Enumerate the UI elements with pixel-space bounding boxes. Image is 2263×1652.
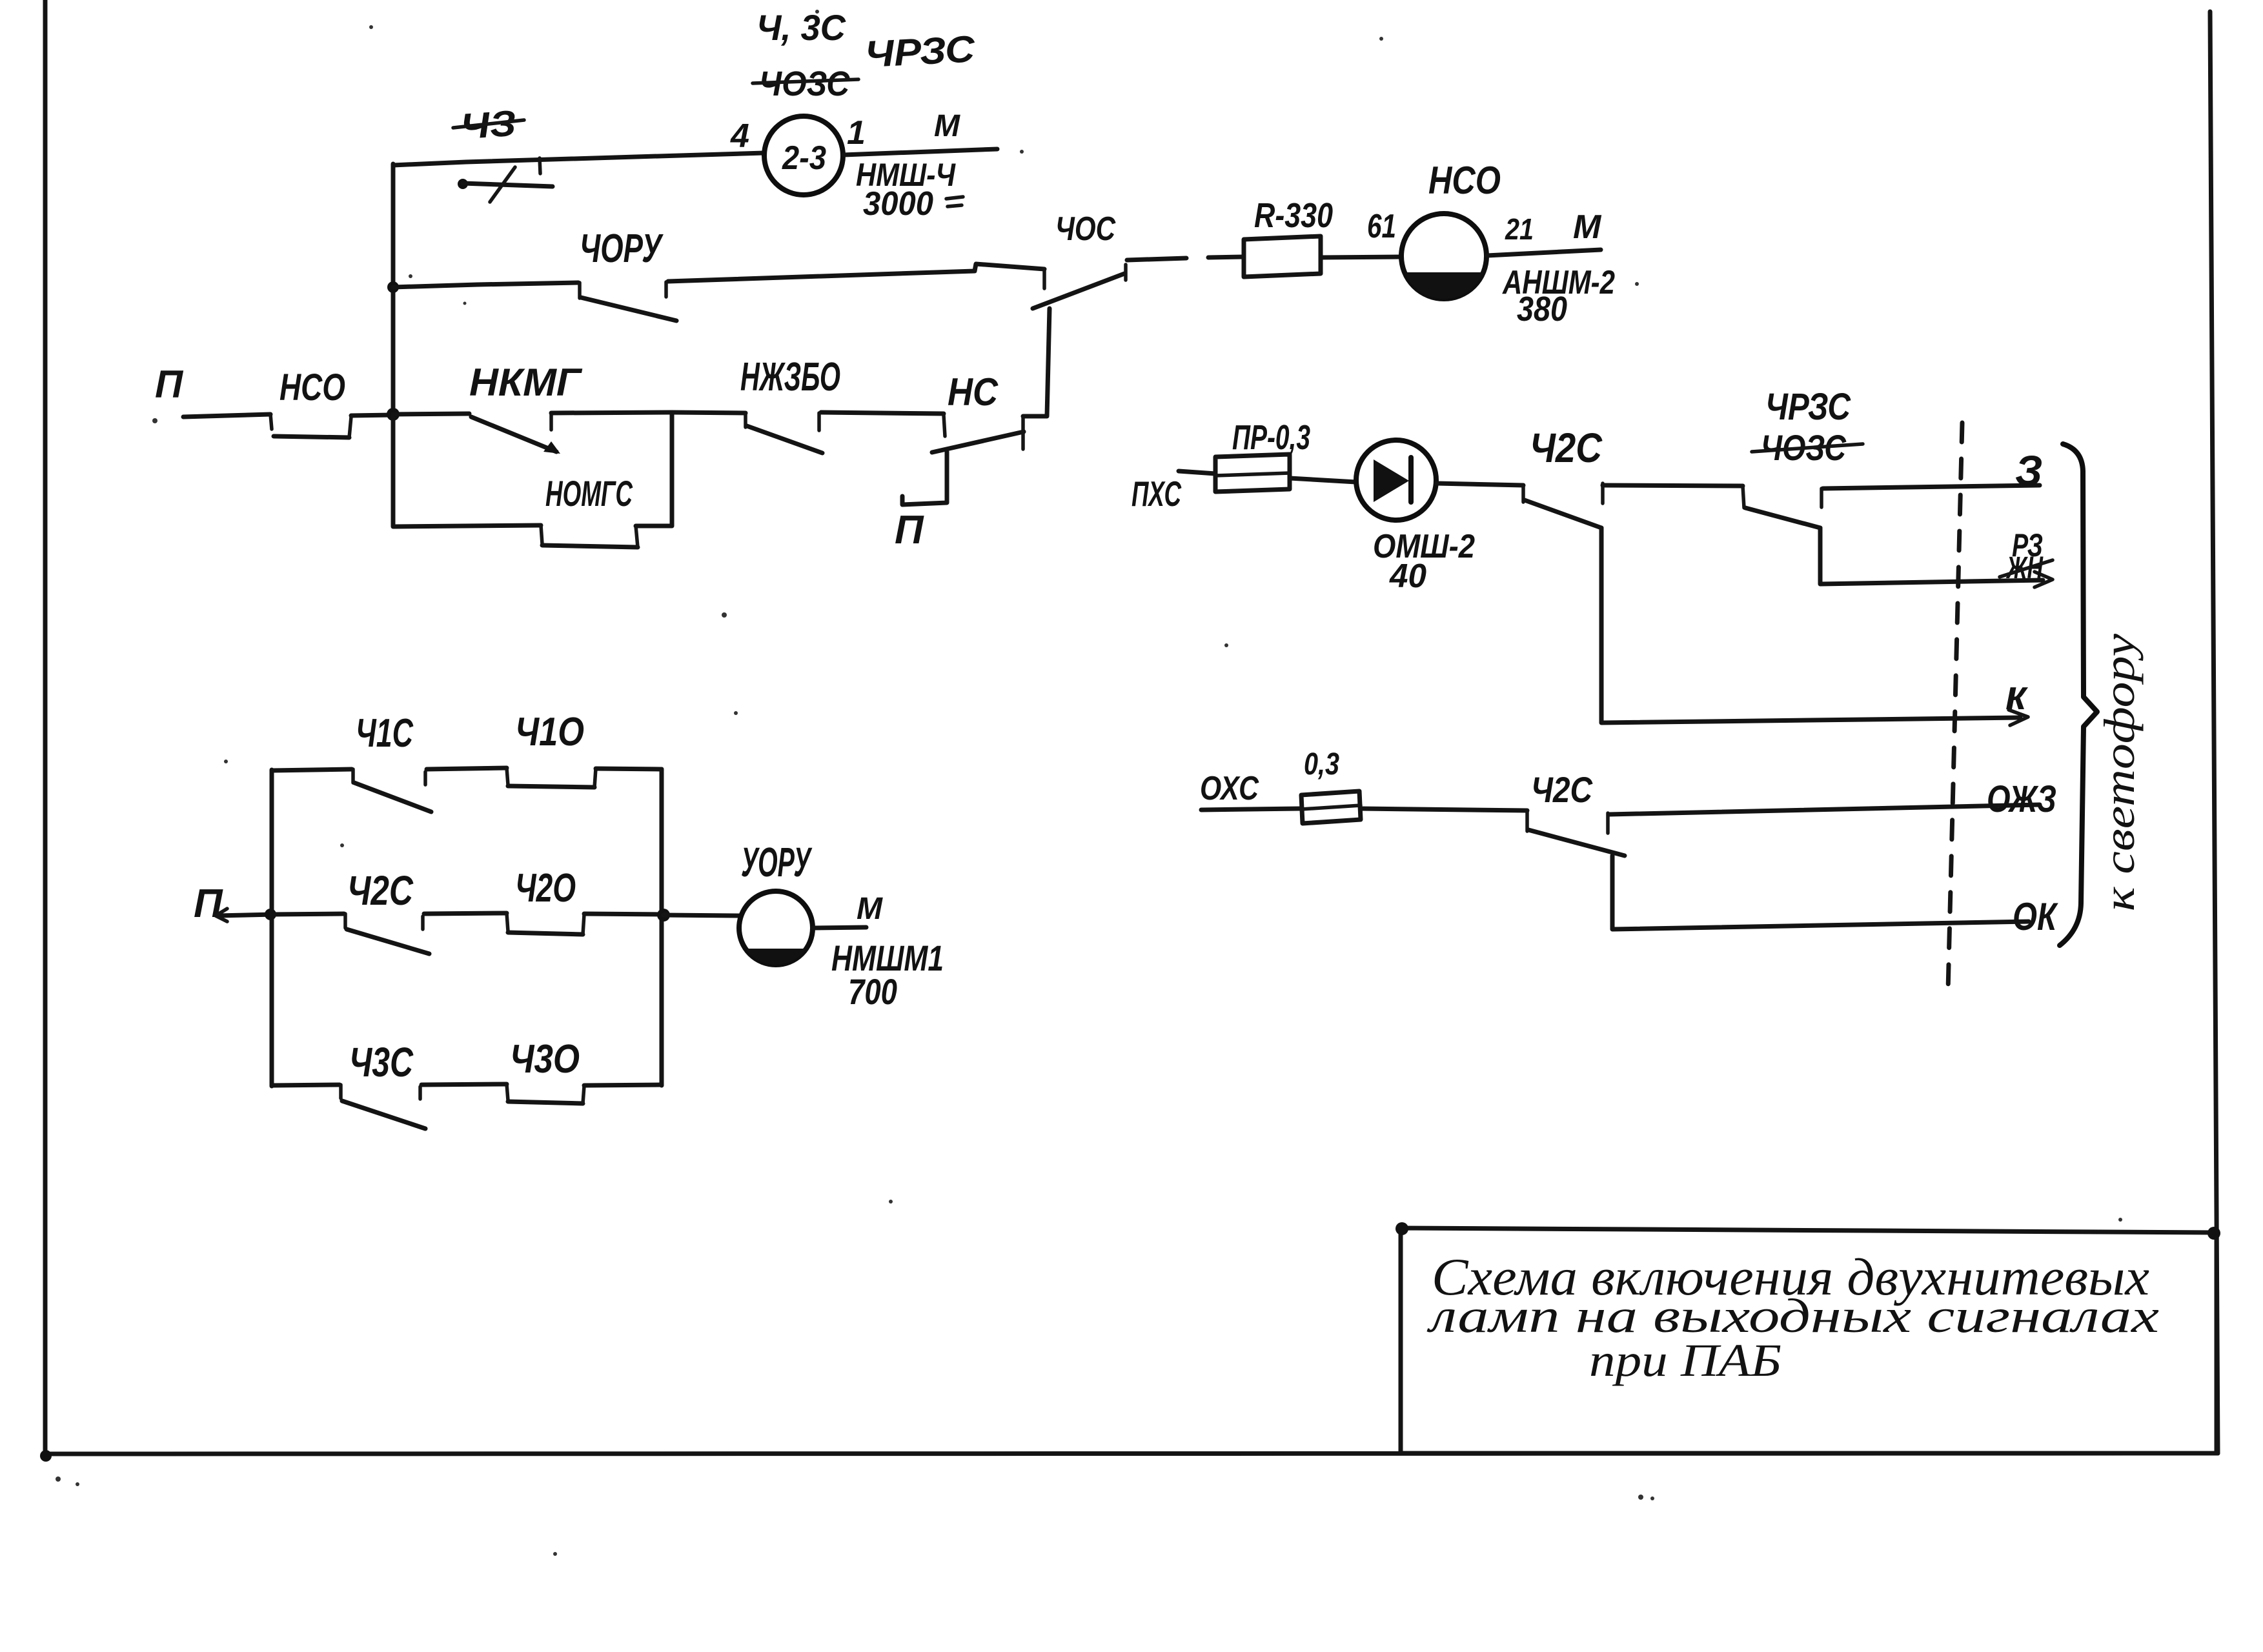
- svg-text:к светофору: к светофору: [2095, 633, 2144, 911]
- contact Ч2С: [1523, 483, 1603, 528]
- label ОЖЗ: [1987, 778, 2056, 820]
- wire row1 mid: [427, 768, 507, 769]
- svg-text:Ч3О: Ч3О: [510, 1037, 580, 1082]
- wire П feed to НС arm: [902, 452, 947, 505]
- svg-text:ЧОС: ЧОС: [1055, 210, 1116, 248]
- fuse 0,3: [1301, 791, 1361, 823]
- fuse ПР-0,3: [1215, 454, 1290, 492]
- svg-text:Ч, 3С: Ч, 3С: [756, 7, 847, 48]
- svg-text:Ч3С: Ч3С: [349, 1039, 414, 1085]
- svg-text:Ч1С: Ч1С: [356, 711, 414, 756]
- corner blob bottom-left: [40, 1450, 52, 1462]
- contact ЧРЗС: [1743, 486, 1822, 528]
- svg-text:0,3: 0,3: [1304, 747, 1339, 781]
- svg-text:З: З: [2015, 447, 2042, 494]
- svg-text:380: 380: [1517, 290, 1567, 328]
- svg-text:НСО: НСО: [279, 367, 345, 408]
- contact Ч1С: [353, 769, 431, 812]
- wire row2 mid: [424, 913, 507, 914]
- svg-text:к: к: [2005, 672, 2029, 718]
- svg-text:Ч2С: Ч2С: [347, 867, 414, 914]
- svg-text:R-330: R-330: [1254, 196, 1333, 235]
- wire resistor to НСО relay: [1321, 257, 1401, 257]
- node tick: [540, 158, 540, 174]
- label ЧОЗС crossed: [753, 65, 858, 103]
- wire row3 mid: [421, 1084, 507, 1085]
- wire ladder output: [664, 915, 739, 916]
- title box: [1395, 1222, 2220, 1453]
- svg-text:М: М: [934, 109, 960, 143]
- contact Ч3С: [341, 1085, 425, 1129]
- wire ladder row3 left: [272, 1085, 340, 1085]
- svg-text:при ПАБ: при ПАБ: [1589, 1335, 1781, 1386]
- bypass wire up: [636, 413, 672, 526]
- wire К branch: [1601, 528, 2020, 723]
- wire ОХС to fuse: [1201, 809, 1300, 810]
- ladder left bus: [270, 770, 274, 1086]
- wire ladder row2 left: [272, 914, 344, 914]
- relay НСО (АНШМ-2 380): [1401, 214, 1487, 299]
- svg-text:М: М: [1573, 208, 1602, 246]
- label ЧЗ crossed: [453, 103, 524, 147]
- svg-text:УОРУ: УОРУ: [741, 839, 813, 885]
- svg-text:4: 4: [730, 117, 749, 155]
- svg-text:Ч1О: Ч1О: [515, 710, 584, 754]
- wire output ОЖЗ: [1609, 805, 2040, 814]
- wire junction to НКМГ: [393, 414, 469, 414]
- svg-text:700: 700: [848, 971, 897, 1012]
- wire П to НСО contact: [183, 414, 270, 417]
- svg-text:ПР-0,3: ПР-0,3: [1232, 418, 1310, 457]
- svg-text:ПХС: ПХС: [1131, 474, 1182, 514]
- node ladder right: [657, 909, 670, 922]
- contact НОМГС (closed): [541, 525, 638, 547]
- wire row2 to ЧОС: [668, 264, 1044, 281]
- contact НСО (closed): [270, 414, 351, 438]
- relay УОРУ (НМШМ1 700): [739, 891, 813, 965]
- svg-text:ЧОРУ: ЧОРУ: [580, 227, 664, 271]
- label ЖН crossed: [2000, 551, 2053, 585]
- wire vertical bus top: [391, 164, 396, 414]
- wire row1 right: [596, 769, 662, 769]
- svg-text:ламп на выходных сигналах: ламп на выходных сигналах: [1426, 1290, 2159, 1343]
- dashed line to signal: [1948, 423, 1962, 991]
- svg-text:21: 21: [1505, 212, 1534, 246]
- border frame right: [2210, 12, 2218, 1453]
- wire row2 left: [393, 283, 578, 287]
- wire НЖЗБО to НС: [821, 412, 944, 414]
- svg-text:НСО: НСО: [1428, 159, 1501, 202]
- contact Ч2С: [345, 914, 429, 954]
- svg-text:ЧРЗС: ЧРЗС: [1765, 386, 1851, 428]
- svg-text:ОК: ОК: [2013, 895, 2058, 938]
- wire ladder row1 left: [272, 769, 352, 771]
- border frame bottom: [45, 1453, 2218, 1454]
- svg-text:НЖЗБО: НЖЗБО: [740, 355, 840, 399]
- wire top row left: [393, 153, 764, 165]
- svg-text:3000: 3000: [863, 185, 933, 223]
- wire ЧОС to resistor (with gap): [1127, 258, 1186, 260]
- diode ОМШ-2 40: [1356, 440, 1436, 520]
- contact Ч3О (closed): [507, 1084, 584, 1103]
- brace к светофору: [2060, 444, 2097, 945]
- svg-text:ОЖЗ: ОЖЗ: [1987, 778, 2056, 820]
- svg-text:НКМГ: НКМГ: [469, 361, 583, 404]
- contact НС: [932, 415, 1024, 452]
- border frame left: [43, 0, 48, 1456]
- svg-text:П: П: [155, 363, 184, 406]
- resistor R-330: [1244, 236, 1321, 277]
- svg-text:М: М: [857, 892, 883, 926]
- wire НКМГ to НЖЗБО: [551, 412, 746, 413]
- wire УОРУ to М: [813, 927, 866, 928]
- svg-text:ОХС: ОХС: [1200, 770, 1259, 807]
- svg-text:ЧРЗС: ЧРЗС: [864, 28, 976, 76]
- wire relay to M: [844, 149, 997, 155]
- wire НСО to М: [1487, 250, 1601, 256]
- node ladder left: [265, 909, 276, 920]
- contact ЧОС: [1033, 265, 1126, 308]
- title text: [1426, 1247, 2159, 1386]
- relay 2-3 (НМШ-4 3000): [764, 116, 843, 195]
- contact Ч2С (lower): [1527, 811, 1625, 856]
- svg-text:П: П: [194, 881, 223, 926]
- wire output З: [1823, 485, 2040, 489]
- contact НКМГ: [471, 414, 560, 454]
- contact НЖЗБО: [746, 413, 822, 453]
- svg-text:Ч2С: Ч2С: [1531, 769, 1593, 810]
- mark =: [946, 197, 963, 206]
- svg-text:Ч2С: Ч2С: [1530, 425, 1603, 471]
- wire П input: [217, 914, 274, 916]
- crossed-out contact У: [458, 167, 553, 202]
- wire diode to Ч2С: [1437, 483, 1523, 485]
- ladder right bus: [660, 769, 664, 1085]
- wire row2 right: [584, 914, 662, 914]
- wire НС to ЧОС riser: [1023, 308, 1050, 416]
- wire fuse to Ч2С: [1361, 809, 1527, 811]
- wire Ч2С to ЧРЗС: [1603, 485, 1743, 486]
- svg-text:2-3: 2-3: [782, 139, 826, 177]
- svg-text:Ч2О: Ч2О: [515, 866, 576, 911]
- wire ОК branch: [1612, 856, 2029, 929]
- junction dot row2: [387, 281, 399, 293]
- svg-text:П: П: [895, 508, 924, 552]
- label ЧОЗС crossed: [1752, 427, 1863, 468]
- junction node row3: [387, 408, 400, 421]
- bypass wire down: [393, 414, 541, 527]
- contact Ч1О (closed): [507, 768, 596, 787]
- wire РЗ branch: [1820, 528, 2043, 584]
- svg-text:НОМГС: НОМГС: [545, 473, 633, 514]
- contact Ч2О (closed): [507, 913, 584, 934]
- wire row3 right: [584, 1085, 662, 1085]
- svg-text:НС: НС: [948, 370, 999, 414]
- svg-text:61: 61: [1367, 208, 1396, 245]
- wire to junction: [351, 415, 393, 416]
- wire fuse to diode: [1290, 478, 1356, 482]
- svg-text:1: 1: [847, 114, 866, 152]
- svg-text:40: 40: [1389, 558, 1426, 595]
- contact ЧОРУ: [580, 282, 676, 321]
- wire ПХС to fuse: [1179, 471, 1215, 474]
